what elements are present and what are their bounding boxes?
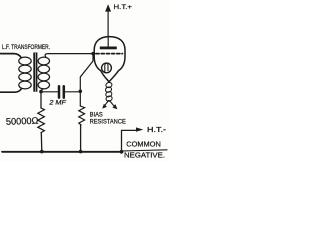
wire resistor R2 to rail xyxy=(80,125,82,152)
wire input bottom lead xyxy=(0,89,22,93)
transformer T1 primary winding xyxy=(19,57,31,89)
wire input top lead xyxy=(0,54,21,58)
wire HT- branch xyxy=(122,130,137,151)
valve V1 anode lead xyxy=(107,37,109,47)
node grid/bias junction xyxy=(91,52,94,55)
valve V1 pinch xyxy=(102,63,112,73)
svg-text:H.T.+: H.T.+ xyxy=(114,4,133,11)
wire anode to HT+ arrow xyxy=(107,11,109,37)
wire bias branch diagonal xyxy=(80,54,93,106)
svg-text:COMMON: COMMON xyxy=(126,139,161,148)
wire secondary top to grid xyxy=(45,54,95,58)
arrow HT+ xyxy=(105,4,111,11)
valve V1 envelope xyxy=(94,37,125,82)
wire rail continuation right xyxy=(122,150,168,151)
node rail HT- xyxy=(120,150,124,154)
wire secondary bottom down xyxy=(41,89,43,108)
svg-text:RESISTANCE: RESISTANCE xyxy=(90,118,127,125)
wire junction to capacitor xyxy=(41,91,58,93)
transformer T1 secondary winding xyxy=(38,57,49,89)
twisted filament leads xyxy=(105,82,113,102)
transformer T1 core xyxy=(33,53,37,92)
resistor R1 50000 ohms xyxy=(38,108,45,133)
arrow HT- xyxy=(136,127,143,131)
wire resistor R1 to rail xyxy=(40,133,43,152)
svg-text:NEGATIVE.: NEGATIVE. xyxy=(124,151,165,160)
filament lead arrows xyxy=(104,101,115,107)
node rail R1 xyxy=(40,150,44,154)
capacitor C1 2MF xyxy=(59,86,64,97)
wire capacitor to bias branch xyxy=(65,91,80,93)
svg-text:2 MF: 2 MF xyxy=(48,100,67,107)
valve V1 filament xyxy=(105,63,108,71)
node capacitor left junction xyxy=(39,90,43,94)
valve V1 anode plate xyxy=(100,47,117,50)
svg-text:H.T.-: H.T.- xyxy=(147,127,167,134)
resistor R2 bias resistance xyxy=(79,106,85,125)
valve V1 grid xyxy=(96,53,123,55)
svg-text:50000Ω: 50000Ω xyxy=(6,115,39,127)
node rail R2 xyxy=(79,150,83,154)
wire common negative rail xyxy=(2,151,122,153)
node bias branch junction xyxy=(79,90,83,94)
svg-text:L.F. TRANSFORMER.: L.F. TRANSFORMER. xyxy=(2,44,50,51)
